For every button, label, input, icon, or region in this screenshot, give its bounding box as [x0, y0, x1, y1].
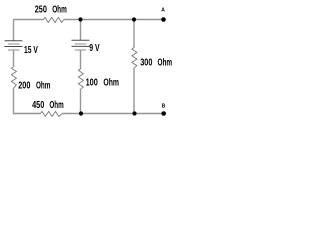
svg-text:Ohm: Ohm — [103, 77, 119, 88]
wire left vertical below R 200 to bottom-left corner — [14, 88, 41, 114]
svg-text:A: A — [161, 8, 165, 14]
wire top horizontal right of R 250 to node A — [64, 19, 164, 21]
node B terminal dot — [161, 111, 166, 116]
svg-text:250: 250 — [35, 4, 48, 15]
svg-text:Ohm: Ohm — [52, 4, 67, 15]
svg-text:B: B — [162, 104, 166, 110]
svg-text:9 V: 9 V — [89, 43, 100, 54]
svg-text:200: 200 — [18, 80, 31, 91]
wire bottom horizontal right of R 450 to node B — [62, 113, 164, 115]
wire middle vertical below battery 9V — [80, 50, 82, 69]
svg-text:Ohm: Ohm — [49, 100, 63, 111]
wire top horizontal left of R 250 — [14, 19, 44, 21]
battery V1 15V plates — [5, 41, 23, 50]
resistor R 200 Ohm zigzag — [11, 66, 16, 88]
resistor R 250 Ohm zigzag — [43, 17, 64, 22]
svg-text:Ohm: Ohm — [36, 80, 50, 91]
resistor R 100 Ohm zigzag — [78, 69, 83, 89]
node A terminal dot — [161, 17, 166, 22]
resistor R 300 Ohm zigzag — [132, 47, 137, 67]
wire right vertical below R 300 to bottom junction — [133, 68, 135, 114]
wire right vertical above R 300 — [133, 20, 135, 48]
junction dot bottom middle — [79, 111, 83, 115]
svg-text:15 V: 15 V — [24, 45, 38, 56]
wire left vertical below battery 15V — [13, 50, 15, 66]
svg-text:100: 100 — [86, 77, 99, 88]
svg-text:Ohm: Ohm — [158, 58, 173, 69]
junction dot top right branch — [132, 17, 136, 21]
svg-text:300: 300 — [140, 58, 153, 69]
svg-text:450: 450 — [32, 100, 45, 111]
wire middle vertical below R 100 to bottom junction — [80, 89, 82, 114]
junction dot top middle — [78, 17, 82, 21]
battery V2 9V plates — [72, 40, 90, 50]
resistor R 450 Ohm zigzag — [40, 111, 62, 116]
junction dot bottom right branch — [132, 111, 136, 115]
wire left vertical above battery 15V — [13, 20, 15, 41]
wire middle vertical above battery 9V — [80, 20, 82, 41]
